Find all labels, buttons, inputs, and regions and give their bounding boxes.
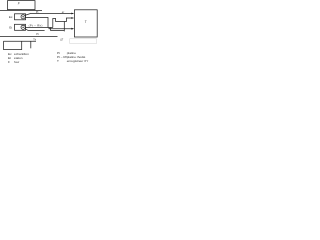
- svg-text:T: T: [85, 20, 87, 24]
- wire common drop to recorder: [49, 28, 73, 29]
- wire furnace thermocouple: [30, 41, 32, 48]
- arrow into recorder input 2: [71, 17, 74, 19]
- thermocouple junction dot 2: [22, 27, 23, 28]
- thermocouple junction dot 1: [22, 16, 23, 17]
- arrow into recorder input 3: [71, 28, 74, 30]
- wire second drop and link: [51, 22, 65, 32]
- wire Pt-Rh from reference junction bar: [25, 27, 53, 29]
- svg-text:T: T: [57, 59, 59, 63]
- crucible Et box: [15, 24, 26, 30]
- wire Pt top to recorder: [25, 14, 73, 16]
- svg-text:four: four: [14, 60, 19, 64]
- svg-text:Pt: Pt: [36, 32, 39, 36]
- svg-text:enregistreur XY: enregistreur XY: [67, 59, 89, 63]
- svg-text:Pt: Pt: [36, 10, 39, 14]
- thermocouple bead circle 2: [21, 25, 25, 29]
- furnace bottom block: [4, 41, 22, 49]
- furnace inner wall bottom: [0, 36, 58, 38]
- recorder box: [74, 10, 97, 37]
- arrow into recorder input 1: [71, 13, 74, 15]
- wire Pt bottom from reference: [25, 29, 45, 31]
- furnace inner wall top: [0, 9, 42, 11]
- background: [0, 0, 100, 66]
- crucible Ec box: [15, 14, 26, 20]
- wire Pt-Rh from sample: [25, 18, 48, 28]
- furnace F top block: [8, 1, 36, 10]
- faint box under recorder: [70, 39, 97, 44]
- thermocouple bead circle 1: [21, 15, 25, 19]
- svg-text:ΔT: ΔT: [60, 39, 64, 42]
- furnace block bottom shelf line: [4, 40, 37, 42]
- svg-text:F: F: [8, 60, 10, 64]
- wire junction riser jog: [53, 18, 73, 28]
- svg-text:Ec: Ec: [9, 15, 13, 19]
- svg-text:(Pt – Rh): (Pt – Rh): [29, 23, 43, 27]
- svg-text:Et: Et: [9, 26, 12, 30]
